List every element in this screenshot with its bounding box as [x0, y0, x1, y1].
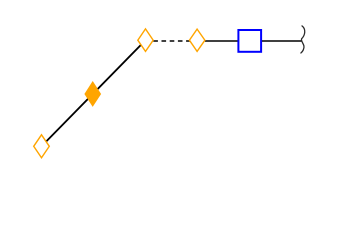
wire from second diamond to blue square: [205, 40, 239, 42]
node filled diamond middle: [85, 82, 100, 106]
squiggle terminator at right end: [301, 26, 305, 53]
wire from blue square to squiggle terminator: [261, 40, 302, 42]
node open diamond bottom-left: [34, 135, 50, 158]
wire dashed between top diamond and second diamond: [153, 40, 190, 42]
node open diamond top (left of dashed line): [138, 29, 153, 52]
wire diagonal from bottom diamond through filled diamond to top diamond: [42, 40, 146, 146]
node open blue square: [238, 30, 261, 52]
node open diamond (right of dashed line): [189, 29, 205, 51]
